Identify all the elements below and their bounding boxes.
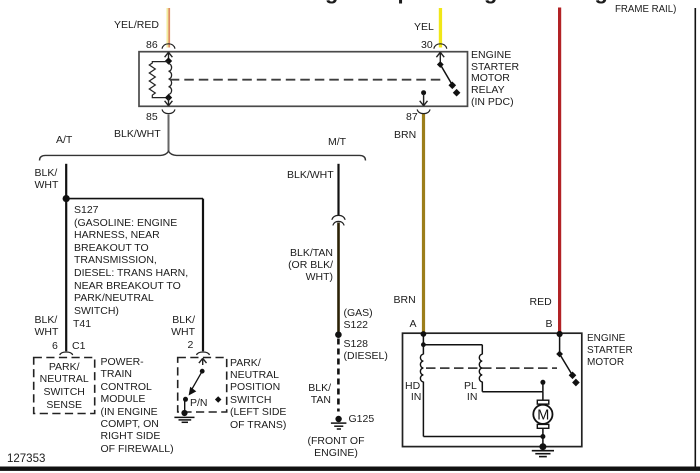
junction diamond bottom of relay coil [165,94,172,101]
label YEL/RED [114,19,159,31]
relay coil resistor (zigzag) [149,62,168,98]
label BLK/WHT pin6 [35,314,59,339]
motor M [533,400,552,428]
svg-text:M: M [537,408,549,424]
HD IN coil [420,354,423,382]
label 2 [188,339,194,351]
splice node S127 dot [63,195,70,202]
label PL IN [464,381,477,404]
ground at starter motor case [532,443,554,456]
split brace A/T M/T [40,151,366,160]
label 87 [406,111,418,123]
label BLK/WHT pin2 [171,314,195,339]
solenoid contact dot above motor [540,380,545,385]
label RED [530,296,552,308]
label P/N [190,397,208,409]
label 86 [146,39,158,51]
connector at pin 30 [434,44,447,49]
label C1 [72,340,85,352]
label FRAME RAIL) [615,4,676,16]
label BLK/TAN (OR BLK/WHT) [287,247,333,284]
wire BLK/TAN M/T branch [337,223,340,332]
label POWERTRAIN CONTROL MODULE [101,356,174,455]
starter switch arm end diamonds [569,371,577,379]
terminal A dot [421,331,427,337]
label A [410,318,417,330]
pin 86 arrow into relay [165,52,173,61]
label (GAS) S122 [344,308,373,332]
label BLK/TAN at G125 [307,382,331,407]
label S128 (DIESEL) [344,339,388,363]
pin 87 arrow out of relay [420,94,428,106]
splice node S122/S128 dot [335,331,342,338]
wire from pin 85 to split [168,115,170,152]
wire A to HD coil and PL feed [422,334,424,354]
label BRN upper [394,129,416,141]
PCM dashed box (PARK/NEUTRAL SWITCH SENSE) [34,358,95,414]
label YEL [414,21,434,33]
connector at P/N switch pin 2 [197,352,210,355]
wire motor to ground [542,428,544,446]
starter switch pivot diamond [556,351,563,358]
wire PL coil to motor node [481,382,483,392]
wire contact to ground [184,400,186,411]
connector at pin 86 [162,44,175,49]
terminal B dot [557,331,563,337]
relay switch pivot diamond [437,61,444,68]
label 30 [421,39,433,51]
P/N switch other contact diamond [215,396,222,403]
label T41 [73,318,91,330]
label BLK/WHT A/T upper [35,167,59,192]
relay switch arm [440,65,454,88]
inline connector halves on M/T branch [332,215,345,219]
label M/T [328,136,346,148]
wire A/T branch upper [65,164,67,199]
right page border [695,8,697,467]
ground G125 [331,416,347,429]
starter switch from B [559,334,561,354]
P/N switch pivot dot [200,369,205,374]
label A/T [56,134,72,146]
label G125 [349,413,375,425]
label PARK/NEUTRAL SWITCH SENSE [34,361,95,412]
junction dot motor to bottom bus [540,434,545,439]
PL IN coil [479,354,482,382]
label HD IN [405,381,421,404]
wire S127 horizontal to pin 2 branch [66,198,203,200]
pin 85 arrow out of relay [165,98,173,106]
bottom page border [0,467,700,471]
wire BRN relay pin 87 to starter terminal A [422,114,425,334]
ground at P/N switch [174,410,194,422]
starter motor box [403,333,582,446]
P/N switch contact dot [183,397,188,402]
starter solenoid dashed line [426,367,557,369]
label 85 [146,111,158,123]
label B [546,318,553,330]
wire HD coil to bottom bus [422,382,424,437]
wire RED to starter terminal B [558,8,561,334]
connector at pin 87 [417,109,430,113]
junction diamond top of relay coil [165,57,172,64]
wire M/T branch upper [337,164,339,216]
relay coil inductor arcs [169,64,172,95]
P/N switch pin 2 arrow [199,358,207,365]
junction dot below A [421,342,426,347]
label 6 [52,340,58,352]
relay actuation dashed line [170,79,444,81]
relay switch arm end diamonds [448,81,456,89]
label relay name [471,50,519,108]
label S127 splice description [74,204,188,317]
connector C1 at PCM [60,352,73,355]
P/N switch arm with arrowhead [191,371,203,391]
label BRN lower [394,294,416,306]
clipped title text fragments [0,0,700,4]
label ENGINE STARTER MOTOR [587,333,633,369]
wire YEL/RED to relay pin 86 [167,8,171,48]
label BLK/WHT M/T [287,169,334,181]
wire A/T branch lower to pin 6 [65,199,67,352]
wire YEL to relay pin 30 [439,8,442,48]
pin 87 contact dot [421,90,426,95]
starter switch arm [560,354,574,378]
P/N switch dashed box [178,358,227,413]
label (FRONT OF ENGINE) [300,435,372,460]
connector at pin 85 [162,109,175,113]
wire pin 2 branch vertical [202,199,204,352]
dashed wire to G125 [337,339,340,412]
relay box K1 [139,52,468,107]
label 127353 [7,453,45,465]
pin 30 arrow into relay [436,52,444,64]
label PARK/NEUTRAL POSITION SWITCH [230,357,286,431]
label BLK/WHT center [114,128,161,140]
